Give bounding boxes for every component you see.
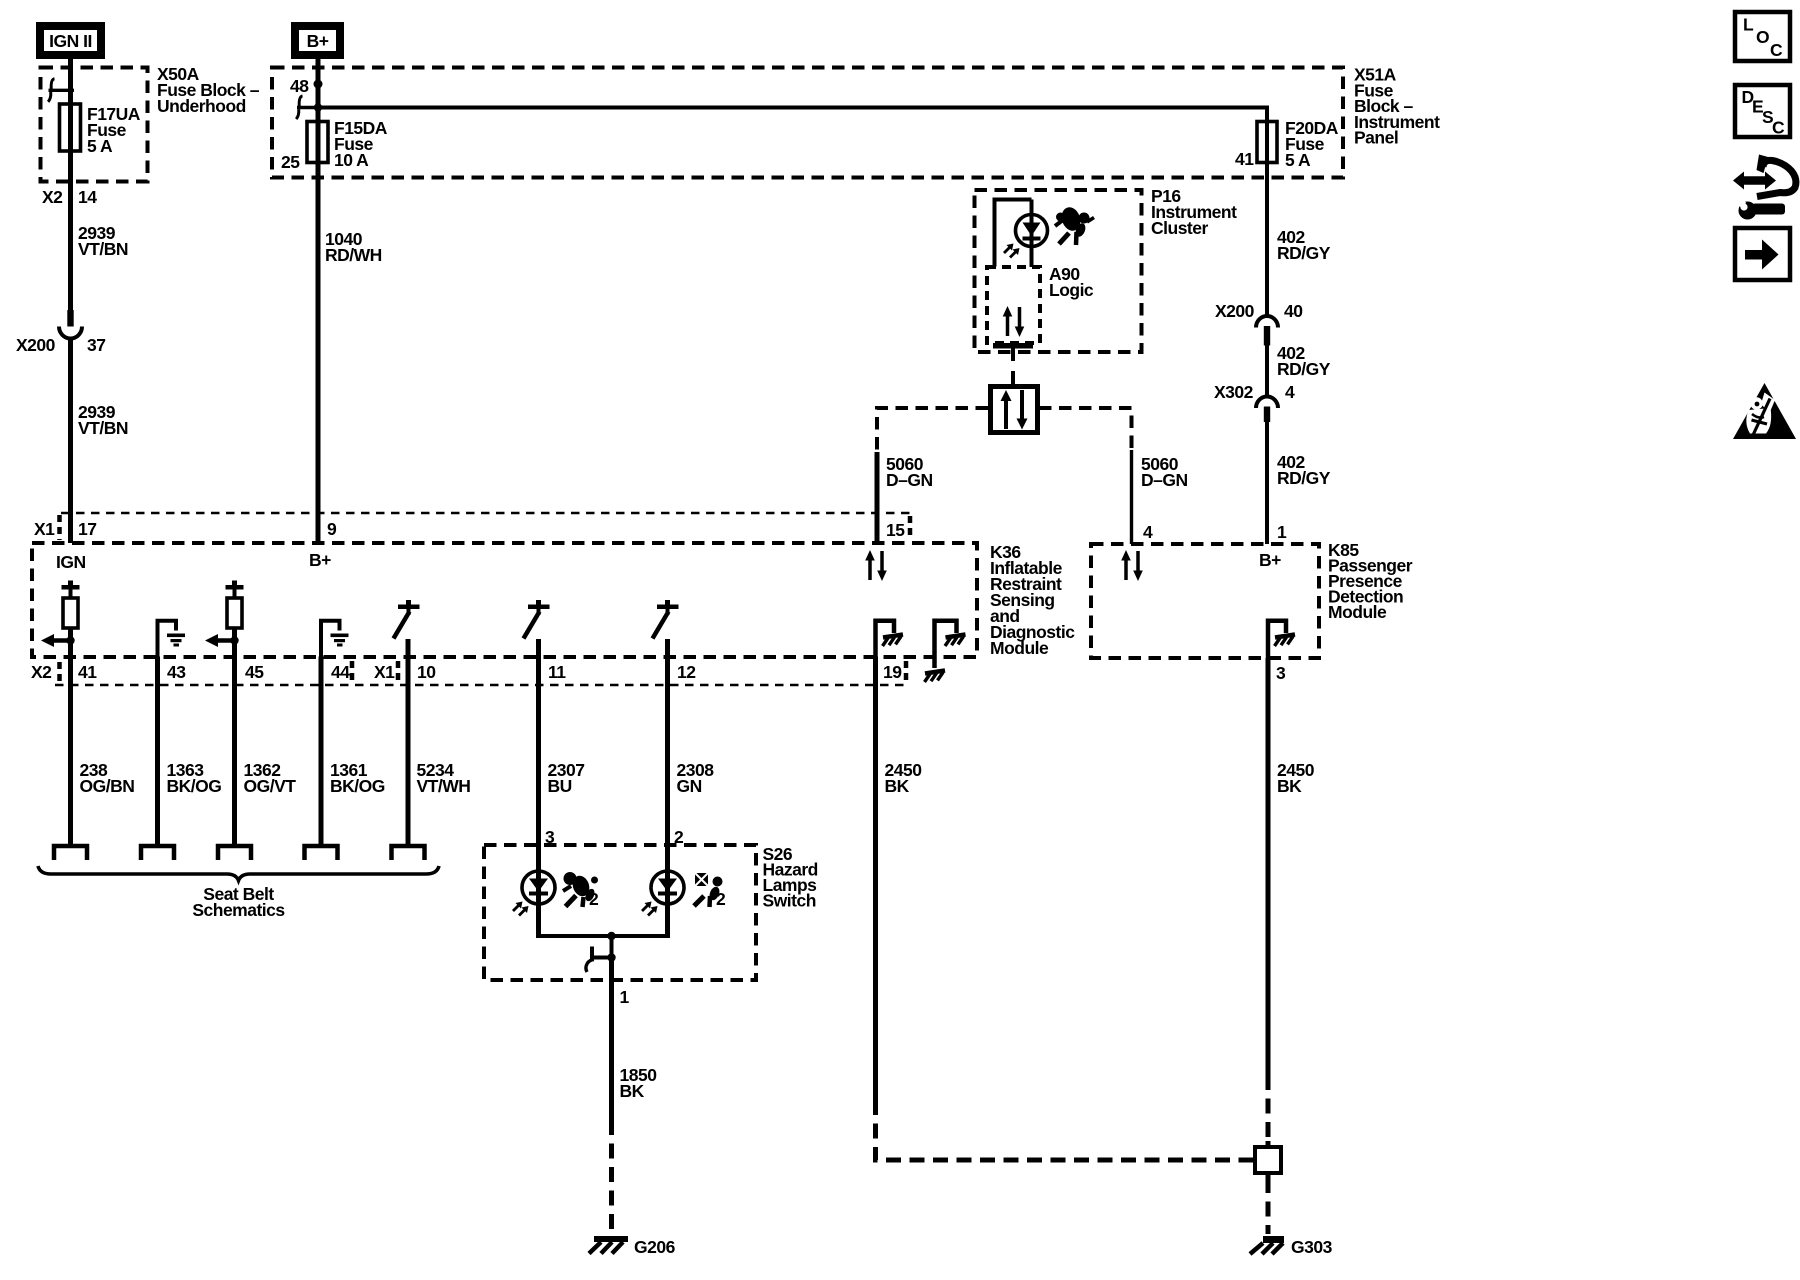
nav icon LOC bbox=[1735, 12, 1790, 61]
svg-text:17: 17 bbox=[78, 519, 96, 539]
fuse block X50A dashed box bbox=[41, 68, 148, 182]
inline connector X200 pin 40 bbox=[1215, 301, 1303, 346]
ground G206 bbox=[589, 1236, 676, 1257]
svg-text:D–GN: D–GN bbox=[1141, 470, 1188, 490]
label P16 Instrument Cluster bbox=[1151, 186, 1237, 238]
LED light arrows bbox=[1004, 244, 1020, 258]
svg-text:Switch: Switch bbox=[763, 891, 816, 911]
label S26 Hazard Lamps Switch bbox=[763, 844, 818, 911]
label IGN inside K36 bbox=[56, 552, 86, 572]
instrument cluster P16 dashed box bbox=[975, 190, 1142, 352]
wire 5234 VT/WH bbox=[408, 639, 470, 846]
svg-text:VT/WH: VT/WH bbox=[417, 776, 471, 796]
wire label 2939 VT/BN (upper) bbox=[78, 223, 128, 259]
svg-text:Schematics: Schematics bbox=[192, 900, 285, 920]
switch contact pin12 bbox=[653, 600, 679, 639]
label K85 Passenger Presence Detection Module bbox=[1328, 540, 1413, 622]
nav icon DESC bbox=[1735, 85, 1790, 138]
svg-text:14: 14 bbox=[78, 187, 97, 207]
wire 402 RD/GY (2) bbox=[1267, 343, 1331, 397]
svg-text:10: 10 bbox=[417, 662, 436, 682]
inline connector X302 pin 4 bbox=[1214, 382, 1295, 422]
terminal pin43 bbox=[141, 846, 174, 860]
hazard lamps switch S26 dashed box bbox=[484, 845, 756, 980]
wire 2450 BK left bbox=[876, 657, 1256, 1161]
svg-text:RD/WH: RD/WH bbox=[325, 245, 382, 265]
svg-text:1: 1 bbox=[1277, 522, 1287, 542]
svg-text:2: 2 bbox=[589, 889, 599, 909]
svg-text:37: 37 bbox=[87, 335, 105, 355]
fuse block X51A dashed box bbox=[272, 68, 1343, 178]
module K85 dashed box bbox=[1091, 544, 1319, 658]
svg-text:5 A: 5 A bbox=[1285, 150, 1311, 170]
svg-text:RD/GY: RD/GY bbox=[1277, 359, 1331, 379]
brace Seat Belt Schematics bbox=[38, 866, 439, 920]
svg-text:D–GN: D–GN bbox=[886, 470, 933, 490]
airbag caution triangle bbox=[1733, 383, 1796, 439]
svg-text:VT/BN: VT/BN bbox=[78, 418, 128, 438]
svg-text:RD/GY: RD/GY bbox=[1277, 468, 1331, 488]
label F15DA Fuse 10 A bbox=[334, 118, 388, 170]
fuse F20DA 5A bbox=[1257, 122, 1277, 163]
wire 402 from F20DA bbox=[1265, 122, 1269, 316]
power feed label IGN II bbox=[40, 26, 101, 55]
airbag warning icon bbox=[1055, 205, 1094, 245]
svg-text:O: O bbox=[1756, 27, 1769, 47]
svg-text:1: 1 bbox=[620, 987, 630, 1007]
terminal pin41 bbox=[54, 846, 87, 860]
logic block A90 dashed box bbox=[987, 267, 1040, 343]
wire label 402 RD/GY (1) bbox=[1277, 227, 1331, 263]
internal ground pin44 bbox=[321, 621, 349, 657]
svg-text:X2: X2 bbox=[31, 662, 52, 682]
svg-text:X200: X200 bbox=[1215, 301, 1255, 321]
svg-text:BK/OG: BK/OG bbox=[167, 776, 222, 796]
wire 402 RD/GY (3) to K85 bbox=[1267, 422, 1331, 544]
airbag icon passenger off + 2 bbox=[694, 873, 726, 909]
svg-text:41: 41 bbox=[1235, 149, 1254, 169]
svg-text:G206: G206 bbox=[634, 1237, 676, 1257]
serial data interface box bbox=[991, 387, 1038, 433]
label 41 pin bbox=[1235, 149, 1254, 169]
power feed label B+ bbox=[295, 26, 340, 55]
terminal clip (X51A) bbox=[296, 96, 322, 119]
svg-text:Logic: Logic bbox=[1049, 280, 1094, 300]
svg-text:Module: Module bbox=[1328, 602, 1387, 622]
svg-text:48: 48 bbox=[290, 76, 309, 96]
switch contact pin11 bbox=[524, 600, 550, 639]
K85 pin4 bidirectional arrows bbox=[1121, 550, 1143, 581]
label F20DA Fuse 5 A bbox=[1285, 118, 1339, 170]
nav icon next arrow bbox=[1735, 228, 1790, 280]
wire 1361 BK/OG bbox=[321, 657, 385, 847]
label 1040 RD/WH bbox=[325, 229, 382, 265]
wire 2939 VT/BN lower bbox=[71, 338, 129, 543]
terminal clip (X50A) bbox=[48, 79, 74, 102]
inline connector X200 pin 37 bbox=[16, 310, 105, 355]
wire B+ feed vertical bbox=[316, 59, 321, 543]
node 48 junction bbox=[290, 76, 323, 96]
wire 2450 BK right bbox=[1268, 658, 1315, 1147]
label B+ inside K36 bbox=[309, 550, 331, 570]
indicator LED right bbox=[642, 871, 684, 936]
svg-text:4: 4 bbox=[1285, 382, 1295, 402]
indicator LED left bbox=[513, 871, 555, 936]
fuse F17UA 5A bbox=[60, 104, 81, 151]
svg-text:41: 41 bbox=[78, 662, 97, 682]
label A90 Logic bbox=[1049, 264, 1094, 300]
dashed harness path left of interface box bbox=[877, 408, 988, 452]
label X51A Fuse Block - Instrument Panel bbox=[1354, 65, 1440, 148]
svg-text:X1: X1 bbox=[34, 519, 55, 539]
svg-text:X200: X200 bbox=[16, 335, 56, 355]
svg-text:B+: B+ bbox=[307, 31, 329, 51]
wire 1850 BK bbox=[612, 958, 658, 1235]
svg-text:Module: Module bbox=[990, 638, 1049, 658]
A90 bidirectional arrows bbox=[1003, 306, 1025, 337]
connector X2 pin 14 labels bbox=[42, 187, 97, 207]
label 25 pin bbox=[281, 152, 300, 172]
svg-text:BU: BU bbox=[548, 776, 572, 796]
wire 1362 OG/VT bbox=[235, 657, 297, 847]
svg-text:IGN II: IGN II bbox=[49, 31, 92, 51]
svg-text:40: 40 bbox=[1284, 301, 1303, 321]
svg-text:RD/GY: RD/GY bbox=[1277, 243, 1331, 263]
svg-text:4: 4 bbox=[1143, 522, 1153, 542]
wire IGN II feed bbox=[68, 59, 73, 311]
svg-text:11: 11 bbox=[548, 662, 566, 682]
fuse F15DA 10A bbox=[307, 122, 328, 163]
svg-text:B+: B+ bbox=[1259, 550, 1281, 570]
svg-text:BK: BK bbox=[885, 776, 910, 796]
airbag icon driver + 2 bbox=[563, 872, 599, 909]
label X50A Fuse Block - Underhood bbox=[157, 64, 260, 116]
svg-text:OG/BN: OG/BN bbox=[80, 776, 135, 796]
connector band X1 top bbox=[34, 513, 910, 540]
svg-text:BK: BK bbox=[1277, 776, 1302, 796]
lamp join bus bbox=[536, 932, 670, 958]
K36 pin15 bidirectional arrows bbox=[865, 550, 887, 581]
svg-text:Underhood: Underhood bbox=[157, 96, 246, 116]
svg-text:5 A: 5 A bbox=[87, 136, 113, 156]
svg-text:VT/BN: VT/BN bbox=[78, 239, 128, 259]
terminal pin44 bbox=[305, 846, 338, 860]
svg-text:L: L bbox=[1743, 15, 1754, 35]
label K36 Inflatable Restraint Sensing and Diagnostic Module bbox=[990, 542, 1075, 658]
wire 5060 D-GN right bbox=[1132, 450, 1188, 544]
svg-text:Panel: Panel bbox=[1354, 128, 1398, 148]
svg-text:IGN: IGN bbox=[56, 552, 86, 572]
svg-text:X302: X302 bbox=[1214, 382, 1254, 402]
K85 internal chassis ground bbox=[1268, 621, 1295, 658]
label F17UA Fuse 5 A bbox=[87, 104, 141, 156]
switch contact S26 bbox=[586, 947, 616, 973]
wire 1363 BK/OG bbox=[158, 657, 222, 847]
svg-text:GN: GN bbox=[677, 776, 702, 796]
resistor sensor pin41 with output arrow bbox=[41, 581, 80, 657]
svg-text:2: 2 bbox=[716, 889, 726, 909]
svg-text:C: C bbox=[1770, 40, 1783, 60]
svg-text:19: 19 bbox=[883, 662, 902, 682]
svg-text:Cluster: Cluster bbox=[1151, 218, 1208, 238]
module K36 dashed box bbox=[32, 543, 977, 657]
svg-text:OG/VT: OG/VT bbox=[244, 776, 297, 796]
terminal pin45 bbox=[218, 846, 251, 860]
svg-text:44: 44 bbox=[331, 662, 350, 682]
svg-text:45: 45 bbox=[245, 662, 264, 682]
svg-text:25: 25 bbox=[281, 152, 300, 172]
svg-text:9: 9 bbox=[327, 519, 337, 539]
label B+ inside K85 bbox=[1259, 550, 1281, 570]
ground G303 bbox=[1250, 1236, 1333, 1257]
svg-text:43: 43 bbox=[167, 662, 186, 682]
dashed harness path right of interface box bbox=[1039, 408, 1132, 450]
svg-text:BK/OG: BK/OG bbox=[330, 776, 385, 796]
svg-text:12: 12 bbox=[677, 662, 696, 682]
svg-text:X1: X1 bbox=[374, 662, 395, 682]
resistor sensor pin45 with output arrow bbox=[205, 581, 244, 657]
switch contact pin10 bbox=[394, 600, 420, 639]
internal chassis ground pin19 bbox=[876, 621, 904, 657]
internal chassis ground (case) bbox=[925, 621, 966, 682]
A90 output tap bar bbox=[993, 343, 1033, 385]
terminal pin10 bbox=[392, 846, 425, 860]
airbag indicator LED bbox=[1016, 215, 1048, 247]
svg-text:C: C bbox=[1772, 118, 1785, 138]
svg-text:10 A: 10 A bbox=[334, 150, 369, 170]
svg-text:B+: B+ bbox=[309, 550, 331, 570]
wire 2308 GN bbox=[668, 639, 715, 872]
svg-text:X2: X2 bbox=[42, 187, 63, 207]
svg-text:15: 15 bbox=[886, 520, 905, 540]
cluster internal wires bbox=[993, 198, 1032, 268]
wire 5060 D-GN left bbox=[877, 452, 933, 543]
svg-text:BK: BK bbox=[620, 1081, 645, 1101]
splice junction block bbox=[1249, 1141, 1281, 1234]
svg-text:G303: G303 bbox=[1291, 1237, 1333, 1257]
internal ground pin43 bbox=[158, 621, 186, 657]
wire 238 OG/BN bbox=[71, 657, 135, 847]
B+ rail wire to F20DA bbox=[318, 106, 1267, 123]
nav icon diagnostic tools bbox=[1733, 155, 1796, 220]
connector band X2/X1 bottom bbox=[31, 661, 906, 685]
svg-text:3: 3 bbox=[1276, 663, 1286, 683]
wire 2307 BU bbox=[539, 639, 585, 872]
